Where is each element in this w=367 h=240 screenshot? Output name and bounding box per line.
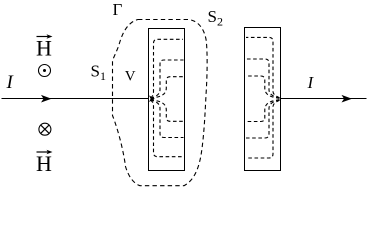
current line P1 bottom middle — [151, 100, 184, 138]
capacitor plate P2 — [245, 28, 281, 171]
current line P1 top outer — [151, 39, 184, 98]
arrowhead on left wire — [41, 95, 52, 103]
field direction into page — [39, 123, 51, 135]
current line P2 top outer — [246, 37, 280, 98]
current line P1 bottom inner — [151, 100, 184, 122]
wire left segment — [2, 98, 150, 100]
current line P1 top middle — [151, 60, 184, 98]
svg-text:H: H — [36, 151, 52, 176]
current line P1 bottom outer — [151, 100, 184, 157]
svg-text:H: H — [36, 36, 52, 61]
wire right segment — [281, 98, 367, 100]
current line P2 bottom middle — [246, 100, 280, 138]
surface S2 dashed outline — [113, 20, 208, 186]
field direction out of page — [39, 65, 51, 77]
svg-text:S1: S1 — [91, 62, 106, 84]
current line P2 bottom inner — [246, 100, 280, 122]
svg-text:I: I — [307, 73, 315, 92]
current line P2 bottom outer — [246, 100, 280, 158]
svg-text:V: V — [125, 69, 136, 85]
svg-text:I: I — [6, 72, 15, 93]
svg-text:S2: S2 — [208, 7, 223, 29]
current line P2 top middle — [246, 59, 280, 98]
vector H bottom: arrow — [37, 150, 53, 155]
vector H top: arrow — [37, 34, 53, 39]
arrowhead at wire-plate junction — [149, 95, 155, 102]
capacitor plate P1 — [149, 29, 185, 171]
current line P2 top inner — [246, 76, 280, 98]
arrowhead on right wire — [342, 95, 353, 103]
current line P1 top inner — [151, 77, 184, 99]
svg-text:Γ: Γ — [113, 0, 123, 19]
